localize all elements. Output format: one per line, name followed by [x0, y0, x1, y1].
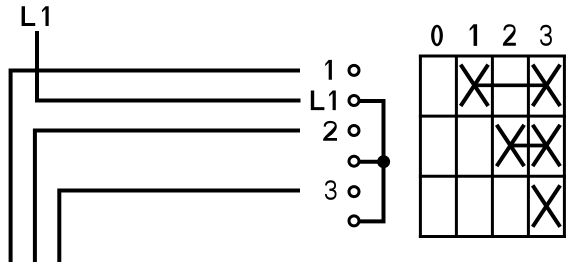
terminal 1 contact circle [349, 65, 359, 75]
label terminal 3 [325, 180, 337, 200]
label position 3 [540, 25, 552, 46]
terminal 2 contact circle [349, 126, 359, 136]
label terminal L1 [311, 91, 336, 111]
contact circle B (unlabelled, bottom) [349, 216, 359, 226]
label terminal 1 [325, 60, 332, 80]
wire 1 (horizontal to terminal 1, corner down to bottom) [11, 71, 300, 263]
wire link row2 (pos2 to pos3) [510, 144, 546, 148]
terminal 3 contact circle [349, 187, 359, 197]
wire link L1 to bottom contact (right bracket) [359, 101, 384, 221]
label position 2 [503, 24, 516, 46]
wire 2 (horizontal to terminal 2, corner down to bottom) [35, 131, 300, 263]
contact X row1 pos1 [461, 65, 489, 106]
label position 0 [431, 25, 443, 47]
label terminal 2 [323, 121, 337, 141]
label position 1 [470, 24, 477, 46]
terminal L1 contact circle [349, 96, 359, 106]
wire link row1 (pos1 to pos3) [474, 83, 546, 87]
wire 3 (horizontal to terminal 3, corner down to bottom) [59, 191, 300, 263]
contact X row3 pos3 [533, 185, 561, 226]
wire stub contact A to link [360, 160, 384, 164]
junction node (filled dot) [377, 155, 390, 168]
wire L1 (vertical drop then horizontal to terminal L1) [37, 31, 301, 101]
contact X row2 pos2 [497, 125, 525, 166]
contact X row1 pos3 [533, 65, 561, 106]
contact X row2 pos3 [533, 125, 561, 166]
contact circle A (unlabelled, between 2 and 3) [349, 156, 359, 166]
label L1 (supply, top left) [22, 6, 49, 26]
contact table grid [419, 55, 566, 239]
